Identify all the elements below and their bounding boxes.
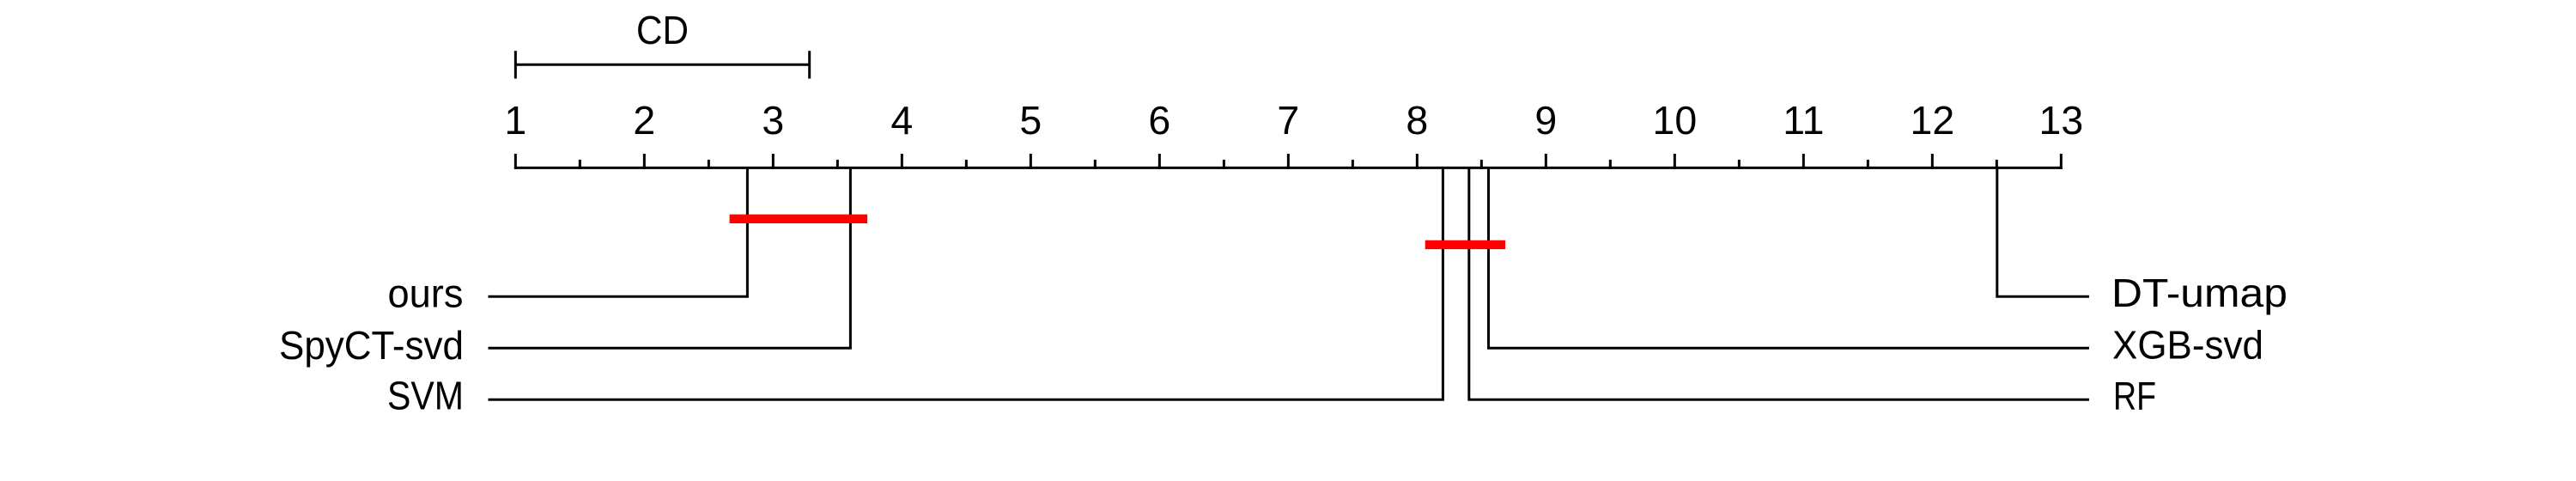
svg-text:ours: ours (388, 271, 464, 316)
minor tick 5.5 (1094, 160, 1097, 169)
svg-text:3: 3 (762, 98, 784, 143)
clique bar 1 (ours, SpyCT-svd) (730, 215, 868, 223)
major tick 7 (1287, 154, 1290, 169)
method line DT-umap (1997, 167, 2089, 296)
svg-text:5: 5 (1019, 98, 1042, 143)
minor tick 2.5 (708, 160, 710, 169)
method line ours (489, 167, 748, 296)
svg-text:12: 12 (1910, 98, 1954, 143)
major tick 10 (1674, 154, 1676, 169)
svg-text:8: 8 (1406, 98, 1428, 143)
major tick 6 (1158, 154, 1161, 169)
minor tick 4.5 (965, 160, 968, 169)
major tick 11 (1802, 154, 1805, 169)
rank axis line (515, 167, 2061, 169)
svg-text:9: 9 (1534, 98, 1557, 143)
svg-text:SVM: SVM (387, 374, 464, 418)
svg-text:4: 4 (890, 98, 913, 143)
major tick 3 (772, 154, 775, 169)
major tick 5 (1030, 154, 1032, 169)
svg-text:6: 6 (1148, 98, 1170, 143)
clique bar 2 (SVM, RF, XGB-svd) (1425, 240, 1505, 249)
minor tick 3.5 (836, 160, 839, 169)
method line RF (1469, 167, 2089, 399)
major tick 1 (514, 154, 517, 169)
minor tick 6.5 (1223, 160, 1225, 169)
svg-text:13: 13 (2038, 98, 2083, 143)
minor tick 9.5 (1609, 160, 1612, 169)
svg-text:SpyCT-svd: SpyCT-svd (279, 323, 464, 368)
minor tick 12.5 (1996, 160, 1998, 169)
svg-text:RF: RF (2113, 374, 2156, 418)
method line SpyCT-svd (489, 167, 851, 348)
major tick 13 (2060, 154, 2063, 169)
svg-text:10: 10 (1652, 98, 1697, 143)
minor tick 11.5 (1867, 160, 1869, 169)
svg-text:1: 1 (504, 98, 526, 143)
minor tick 8.5 (1480, 160, 1483, 169)
svg-text:11: 11 (1783, 98, 1824, 143)
svg-text:CD: CD (636, 8, 689, 52)
svg-text:DT-umap: DT-umap (2111, 271, 2287, 315)
minor tick 7.5 (1352, 160, 1354, 169)
major tick 12 (1931, 154, 1934, 169)
minor tick 1.5 (579, 160, 581, 169)
svg-text:2: 2 (633, 98, 655, 143)
minor tick 10.5 (1738, 160, 1741, 169)
method line XGB-svd (1489, 167, 2090, 348)
svg-text:7: 7 (1277, 98, 1299, 143)
major tick 2 (643, 154, 646, 169)
svg-text:XGB-svd: XGB-svd (2112, 322, 2263, 367)
major tick 8 (1416, 154, 1419, 169)
major tick 4 (901, 154, 903, 169)
method line SVM (489, 167, 1443, 399)
major tick 9 (1545, 154, 1547, 169)
CD interval bracket (515, 51, 809, 78)
